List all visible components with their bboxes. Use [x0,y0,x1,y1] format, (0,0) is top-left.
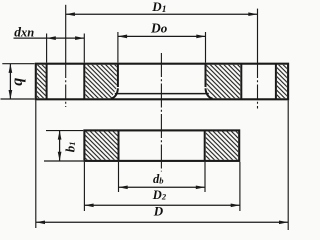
dimension b1 line [59,130,61,161]
bore left wall [117,64,119,87]
centerline: central axis [160,53,162,172]
bore right wall [205,64,207,87]
dimension b1 extension lines [46,130,83,132]
dimension dxn extension lines [46,34,48,63]
bolt hole right: walls [240,64,242,99]
hatch: ring right wall [206,132,238,160]
ring bore left wall [118,130,120,161]
svg-text:dxn: dxn [14,25,34,40]
dimension db line [119,186,206,188]
svg-text:D: D [153,203,164,218]
hatch: flange right rim [277,65,287,98]
svg-text:Do: Do [150,20,168,35]
hatch: ring left wall [86,132,118,160]
hatch: flange web right [207,65,241,98]
dimension dxn line with leader under label [14,37,85,39]
dimension D0 line [118,35,206,37]
bore right bottom chamfer [206,88,213,98]
centerline: right bolt hole axis / D1 extension [257,9,259,63]
dimension D0 extension lines [117,32,119,63]
dimension D1 line [66,13,258,15]
centerline: left bolt hole axis / D1 extension [65,5,67,63]
dimension q extension lines [2,63,34,65]
svg-text:q: q [9,78,26,86]
dimension D line [36,221,288,223]
bolt hole left: walls [46,64,48,99]
recess line between chamfers [115,93,209,95]
flange outline (top section view) [36,64,288,100]
dimension q line [9,64,11,99]
hatch: flange left rim [37,65,46,98]
ring bore right wall [204,130,206,161]
hatch: flange web left (between bolt hole and bore) [85,65,116,98]
dimension D2 extension lines [83,162,85,211]
dimension D2 line [84,204,240,206]
dimension db extension lines [118,162,120,192]
bore left bottom chamfer [111,88,118,98]
ring outline (bottom section view) [84,130,239,161]
dimension D extension lines [35,100,37,228]
